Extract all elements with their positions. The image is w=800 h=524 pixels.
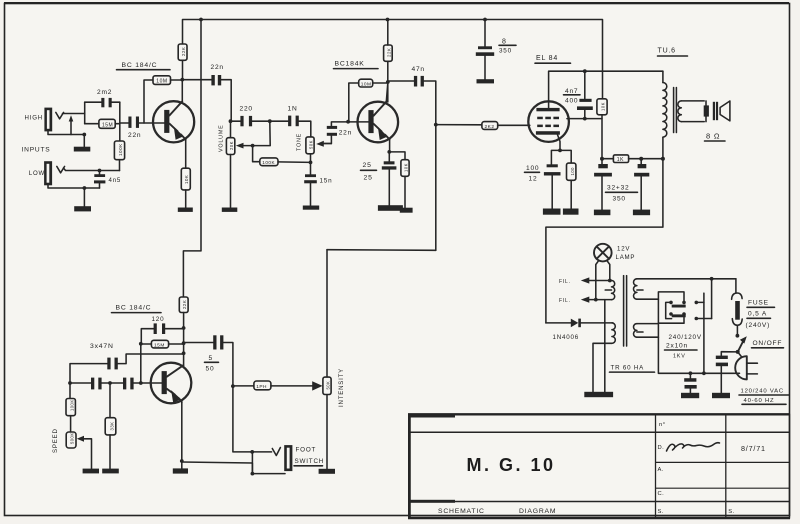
node footswitch tip [250,450,254,454]
resistor 1PHK [233,381,323,391]
svg-text:2m2: 2m2 [97,89,112,96]
diode 1N4006 [546,319,613,328]
wire primary bus [658,299,739,373]
wiper volume [236,121,270,148]
node B input [119,102,121,141]
svg-text:32+32: 32+32 [607,185,630,192]
label FUSE 0,5A 240V [746,300,775,330]
node screen [583,117,587,121]
ground cathode resistor [563,209,579,215]
svg-text:5: 5 [209,355,213,362]
node wiper junction [251,144,255,148]
ground stage1 emitter [178,208,193,212]
node collector 15M [182,341,186,345]
node stage2 base [346,120,350,124]
svg-text:FIL.: FIL. [559,279,571,285]
capacitor 10n left [684,371,697,392]
node anode line [583,69,587,73]
resistor 22K collector stage1 [178,44,187,80]
label 12V LAMP [616,246,636,262]
capacitor 47n osc1 [70,354,184,383]
svg-text:INTENSITY: INTENSITY [338,368,345,407]
node osc base row 1 [68,381,72,385]
ground tone [303,206,319,210]
label 120/240 VAC 40-60 HZ [739,389,789,405]
svg-text:TONE: TONE [297,133,303,151]
ground emitter stage3 [173,461,188,474]
subtitle schematic diagram [438,508,556,515]
wire anode [549,71,663,108]
svg-text:FUSE: FUSE [748,300,769,307]
title block row labels [658,422,735,515]
voltage selector 240/120V [658,277,713,373]
wire base to transistor stage2 [348,121,368,123]
jack switch arrow [69,115,74,134]
ground high input [74,135,91,152]
svg-text:BC 184/C: BC 184/C [116,305,152,312]
resistor 1K [602,155,663,163]
wire collector stage2 [386,83,388,102]
svg-text:15M: 15M [102,122,113,128]
svg-text:LOW: LOW [29,170,45,177]
svg-text:8/7/71: 8/7/71 [741,444,766,453]
ground transformer [584,392,613,397]
svg-text:100: 100 [526,165,539,172]
wire lamp right lead [607,260,610,280]
svg-text:BC184K: BC184K [335,61,365,68]
capacitor 25/25 emitter bypass [361,152,397,205]
potentiometer VOLUME 20K [226,121,234,207]
svg-text:(240V): (240V) [746,322,771,329]
svg-text:33K: 33K [109,422,114,431]
transformer TR HT winding [593,323,615,392]
capacitor 15n [304,174,332,205]
capacitor 22n input coupling [120,117,165,139]
node B+ right [639,157,643,161]
svg-text:S.: S. [658,509,664,515]
label 3x47N [90,343,114,350]
wiper tone [316,141,331,147]
B+ supply rail [183,20,603,99]
capacitor 47n osc2 [70,378,123,390]
svg-text:22n: 22n [211,64,224,71]
node lamp left [594,298,598,302]
svg-text:22K: 22K [386,48,391,57]
resistor 2K2 grid stopper [436,122,530,130]
capacitor 32+32 right [634,159,649,210]
svg-text:S.: S. [728,509,734,515]
wire B+ from rectifier [546,159,663,323]
svg-text:SWITCH: SWITCH [295,458,325,465]
wire lamp left lead [596,260,599,299]
node transformer bottom [661,157,665,161]
wire LOW sleeve [48,185,100,188]
wire FIL 2 with arrow [581,297,612,303]
wire feedback riser [140,344,142,383]
ground volume [222,208,238,212]
transformer TR core [624,276,627,346]
svg-text:TU.6: TU.6 [658,48,676,55]
ground filter left [594,210,611,216]
svg-text:22n: 22n [128,132,141,139]
svg-text:100: 100 [570,167,575,176]
capacitor 22n stage2 base [327,122,352,144]
node footswitch sleeve [251,472,255,476]
label FIL 2 [559,298,571,304]
signature [667,443,720,451]
capacitor 100/12 cathode [525,150,561,208]
svg-text:M. G. 10: M. G. 10 [466,455,555,475]
svg-text:100K: 100K [118,143,123,156]
label TR 60 HA [610,365,655,373]
svg-text:2K2: 2K2 [485,124,495,130]
potentiometer SPEED 500K [66,432,91,469]
svg-text:1KV: 1KV [673,354,686,360]
ground stage2 resistor [400,208,413,213]
svg-text:DIAGRAM: DIAGRAM [519,508,556,515]
svg-text:500K: 500K [70,432,75,444]
svg-text:50K: 50K [326,381,331,390]
label TU.6 [658,48,688,57]
label ON/OFF [752,340,784,348]
node volume top [229,119,233,123]
label EL 84 [535,55,571,63]
resistor 100K osc [66,383,75,432]
svg-text:4n7: 4n7 [565,88,578,95]
label FIL 1 [559,279,571,285]
mains plug [735,356,757,379]
svg-text:8 Ω: 8 Ω [706,132,720,141]
svg-text:100K: 100K [69,399,74,411]
transformer TU6 core [674,88,677,133]
resistor 100K input [114,141,124,171]
node A input [84,102,86,124]
svg-text:FIL.: FIL. [559,298,571,304]
resistor 10K emitter stage1 [181,140,190,208]
svg-text:350: 350 [613,196,626,203]
svg-text:8: 8 [502,39,507,46]
svg-text:C.: C. [658,491,665,497]
svg-text:10K: 10K [403,163,408,172]
svg-text:400: 400 [565,98,578,105]
wire heater return [604,300,606,392]
node stage2 collector [386,80,390,84]
svg-text:20K: 20K [229,141,234,150]
wire trem to footswitch [233,386,272,452]
wire long vertical feed to oscillator [183,20,201,298]
svg-text:TR 60 HA: TR 60 HA [611,365,645,372]
label BC 184/C stage3 [112,305,162,313]
label 240/120V [669,334,702,341]
transformer TR primary upper [634,279,736,299]
svg-text:1N4006: 1N4006 [553,334,579,341]
svg-text:1N: 1N [288,106,298,113]
jack LOW input [44,161,119,185]
title block [408,414,790,518]
fuse 0.5A [732,279,743,338]
svg-text:SCHEMATIC: SCHEMATIC [438,508,485,515]
svg-text:2x10n: 2x10n [666,343,688,350]
resistor 15M input [85,119,120,128]
svg-text:25: 25 [363,162,372,169]
node emitter stage3 [180,459,184,463]
capacitor 8/350 [476,20,516,84]
node tone bottom [309,161,313,165]
node selector mains [702,371,706,375]
svg-text:50K: 50K [309,140,314,149]
capacitor 22n coupling out stage1 [182,64,231,121]
node collector 120 [182,326,186,330]
node osc base row 2 [108,381,112,385]
ground speed [83,469,99,474]
label FOOT SWITCH [294,447,324,466]
capacitor 5/50 output [184,335,233,386]
transistor Q3 BC184C [151,363,192,404]
resistor 10M feedback stage2 [349,79,388,122]
wire emitter to footswitch [182,462,253,474]
capacitor 4n7/400 [564,71,593,118]
svg-text:ON/OFF: ON/OFF [753,340,783,347]
resistor 33K osc [105,383,116,469]
label LOW [29,170,45,177]
resistor 100K tone network [253,146,311,166]
svg-text:n°: n° [659,422,666,428]
label 32+32/350 [606,185,638,203]
label 1N4006 [553,334,579,341]
resistor 15M stage3 [141,340,183,348]
label 8 ohm [705,132,726,142]
label INPUTS [22,147,51,154]
node low tip junction [98,169,102,173]
transformer TU6 secondary [678,101,709,122]
date 8/7/71 [741,444,766,453]
capacitor 120 [141,316,183,344]
node base feedback [139,342,143,346]
ground cathode cap [543,209,561,215]
node collector top feed [182,351,186,355]
transformer TR primary lower [634,324,659,338]
capacitor 10n right [716,352,738,393]
node osc base row 3 [139,381,143,385]
speaker [713,101,730,121]
svg-text:50: 50 [206,366,215,373]
svg-text:240/120V: 240/120V [669,334,702,341]
label TONE [297,133,303,151]
svg-text:12: 12 [529,176,538,183]
node: rail junction filter cap [483,18,487,22]
label BC 184/C stage1 [117,62,171,70]
label 2x10n 1KV [665,343,698,360]
wire emitter stage3 [181,402,183,461]
svg-text:EL 84: EL 84 [536,55,558,62]
transistor Q2 BC184K [358,102,399,143]
ground intensity [319,469,335,474]
wire screen grid [567,118,602,120]
resistor 22K collector stage2 [384,20,393,103]
label HIGH [25,115,43,122]
switch ON/OFF [736,336,747,357]
svg-text:350: 350 [499,48,512,55]
svg-text:10K: 10K [184,175,189,184]
node: rail junction stage2 [386,18,390,22]
potentiometer INTENSITY [323,250,331,469]
title text M.G.10 [466,455,555,475]
ground low input [74,188,91,211]
node: rail junction to preamp long feed [199,18,203,22]
svg-text:220: 220 [240,106,253,113]
capacitor 1N [270,106,311,137]
svg-text:10M: 10M [156,79,167,85]
svg-text:FOOT: FOOT [296,447,317,454]
svg-text:BC 184/C: BC 184/C [122,62,158,69]
node low sleeve [83,186,87,190]
svg-text:22K: 22K [181,47,186,56]
resistor 10K emitter stage2 [389,152,409,208]
resistor 10K screen [597,99,607,159]
node grid junction [434,123,438,127]
capacitor 32+32 left [594,159,612,210]
svg-text:25: 25 [364,175,373,182]
wire FIL 1 with arrow [581,277,612,283]
capacitor 2m2 [85,89,120,107]
node B+ [600,157,604,161]
wire cathode [558,135,561,151]
capacitor 47n coupling [388,66,436,250]
svg-text:10K: 10K [600,102,605,111]
svg-text:12V: 12V [617,246,630,253]
svg-text:1PH: 1PH [256,384,267,390]
transistor Q1 BC184C [153,101,194,142]
svg-text:4n5: 4n5 [109,177,122,184]
label BC184K stage2 [334,61,379,69]
svg-text:HIGH: HIGH [25,115,43,122]
node collector stage1 [180,78,184,82]
svg-text:40-60 HZ: 40-60 HZ [744,398,775,404]
svg-text:10M: 10M [361,81,372,87]
svg-text:0,5 A: 0,5 A [748,311,767,318]
wire footswitch link [251,452,253,474]
svg-text:120: 120 [152,316,165,323]
transformer TU6 primary [663,71,667,159]
svg-text:15n: 15n [320,178,333,185]
svg-text:1K: 1K [617,157,624,163]
resistor 10M feedback stage1 [144,76,182,123]
ground stage2 [378,205,403,211]
svg-text:INPUTS: INPUTS [22,147,51,154]
svg-text:120/240 VAC: 120/240 VAC [741,389,784,395]
node sleeve junction [82,133,86,137]
node 220/1N junction [268,119,272,123]
capacitor 4n5 [94,171,121,189]
wire collector stage1 [181,80,183,102]
label SPEED [52,428,59,453]
potentiometer TONE 50K [306,137,314,174]
svg-text:15M: 15M [154,342,165,348]
svg-text:22n: 22n [339,130,352,137]
svg-text:22K: 22K [182,300,187,309]
svg-text:3x47N: 3x47N [90,343,114,350]
jack FOOT SWITCH [252,445,292,474]
ground 10n right [712,393,730,398]
wire HIGH sleeve [48,131,84,135]
ground 33K [102,469,119,474]
resistor 100 cathode [560,150,576,208]
svg-text:A.: A. [658,467,664,473]
label INTENSITY [338,368,345,407]
svg-text:VOLUME: VOLUME [219,124,225,152]
label VOLUME [219,124,225,152]
jack HIGH input [44,108,84,132]
capacitor 220 [231,106,270,127]
wire emitter stage2 [389,139,391,152]
svg-text:LAMP: LAMP [616,254,636,261]
node tremolo out [231,384,235,388]
node emitter stage2 [387,150,391,154]
tube EL84 [528,101,569,142]
svg-text:SPEED: SPEED [52,428,59,453]
resistor 22K collector stage3 [179,297,188,366]
transformer TR heater winding [605,281,615,300]
ground 10n left [681,393,699,398]
ground filter right [633,210,650,216]
capacitor 47n osc3 [123,378,162,390]
node cathode [558,149,562,153]
lamp 12V [594,244,612,262]
wire grid node to intensity [327,249,436,252]
svg-text:47n: 47n [412,66,425,73]
svg-text:100K: 100K [262,160,275,165]
node lamp right [608,279,612,283]
svg-text:D.: D. [658,445,665,451]
